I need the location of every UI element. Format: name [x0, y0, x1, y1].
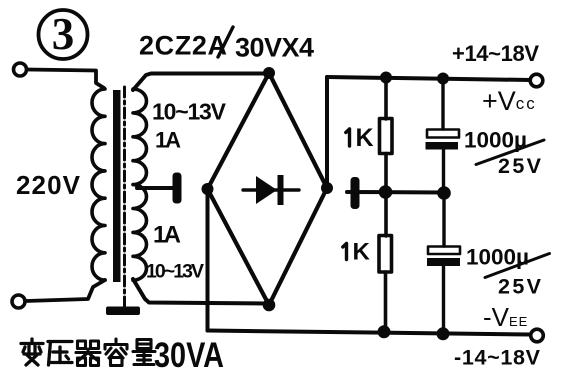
label 1K lower — [343, 244, 347, 260]
node: bridge top vertex — [263, 67, 275, 79]
caption hanzi: ya (pressure) — [48, 342, 72, 366]
resistor R2 1K lower — [379, 192, 392, 332]
svg-text:10~13V: 10~13V — [152, 99, 227, 125]
bridge rectifier diamond outline — [208, 73, 328, 305]
caption hanzi: qi (device) — [76, 341, 100, 366]
transformer secondary winding — [133, 89, 147, 280]
diode symbol inside bridge — [243, 175, 299, 205]
svg-text:K: K — [353, 239, 371, 266]
svg-text:1A: 1A — [155, 128, 181, 153]
svg-text:3: 3 — [52, 9, 75, 59]
terminal: primary top input — [14, 63, 27, 76]
wire: negative riser from bridge left vertex — [206, 189, 210, 331]
fraction slash upper — [476, 140, 544, 165]
capacitor C1 1000u/25V upper — [426, 78, 460, 192]
svg-text:-14~18V: -14~18V — [454, 346, 541, 370]
wire: -Vee bottom rail — [208, 331, 531, 335]
shield ground bar — [106, 307, 140, 316]
node: bridge right vertex — [321, 182, 333, 194]
wire: center tap lead — [137, 186, 174, 190]
node on top rail at capacitor — [437, 73, 449, 85]
node on top rail at resistor — [380, 72, 392, 84]
terminal: -Vee output — [531, 329, 544, 342]
fraction slash lower — [485, 254, 550, 278]
transformer shield (dash-dot line) — [123, 87, 126, 306]
terminal: +Vcc output — [530, 74, 543, 87]
caption hanzi: bian (transformer) — [21, 339, 43, 365]
node on mid rail at capacitor — [437, 186, 451, 200]
wire: secondary bottom lead to bridge — [133, 279, 266, 304]
transformer core — [113, 90, 121, 282]
wire: secondary top lead to bridge — [133, 74, 266, 91]
transformer primary winding — [92, 89, 105, 280]
svg-text:25V: 25V — [498, 154, 542, 178]
node on bottom rail at resistor — [378, 325, 391, 338]
wire: primary bottom lead — [26, 280, 105, 301]
node on bottom rail at capacitor — [437, 327, 450, 340]
node: bridge bottom vertex — [263, 299, 276, 312]
caption hanzi: liang (amount) — [133, 340, 155, 365]
wire: positive riser from bridge right vertex — [325, 77, 329, 188]
svg-text:30VX4: 30VX4 — [235, 33, 314, 63]
svg-text:K: K — [356, 124, 374, 152]
svg-text:1A: 1A — [153, 222, 181, 249]
resistor R1 1K upper — [380, 77, 393, 192]
capacitor C2 1000u/25V lower — [427, 193, 460, 334]
svg-text:25V: 25V — [498, 275, 542, 299]
svg-text:30VA: 30VA — [154, 336, 224, 375]
wire: midpoint rail — [347, 190, 444, 195]
connector bar: filter midpoint — [351, 177, 360, 209]
caption hanzi: rong (capacity) — [105, 339, 127, 366]
node on mid rail at resistor — [379, 185, 393, 199]
wire: +Vcc top rail — [327, 77, 530, 80]
svg-text:10~13V: 10~13V — [146, 261, 204, 283]
wire: primary top lead — [27, 70, 104, 89]
connector bar: center tap — [173, 173, 182, 204]
node: bridge left vertex — [202, 183, 214, 195]
svg-text:2CZ2A: 2CZ2A — [139, 31, 227, 61]
figure number 3 (circled) — [39, 9, 88, 59]
svg-text:220V: 220V — [16, 170, 81, 200]
svg-text:+14~18V: +14~18V — [452, 41, 539, 66]
label 1K upper — [346, 129, 350, 146]
terminal: primary bottom input — [12, 295, 25, 308]
